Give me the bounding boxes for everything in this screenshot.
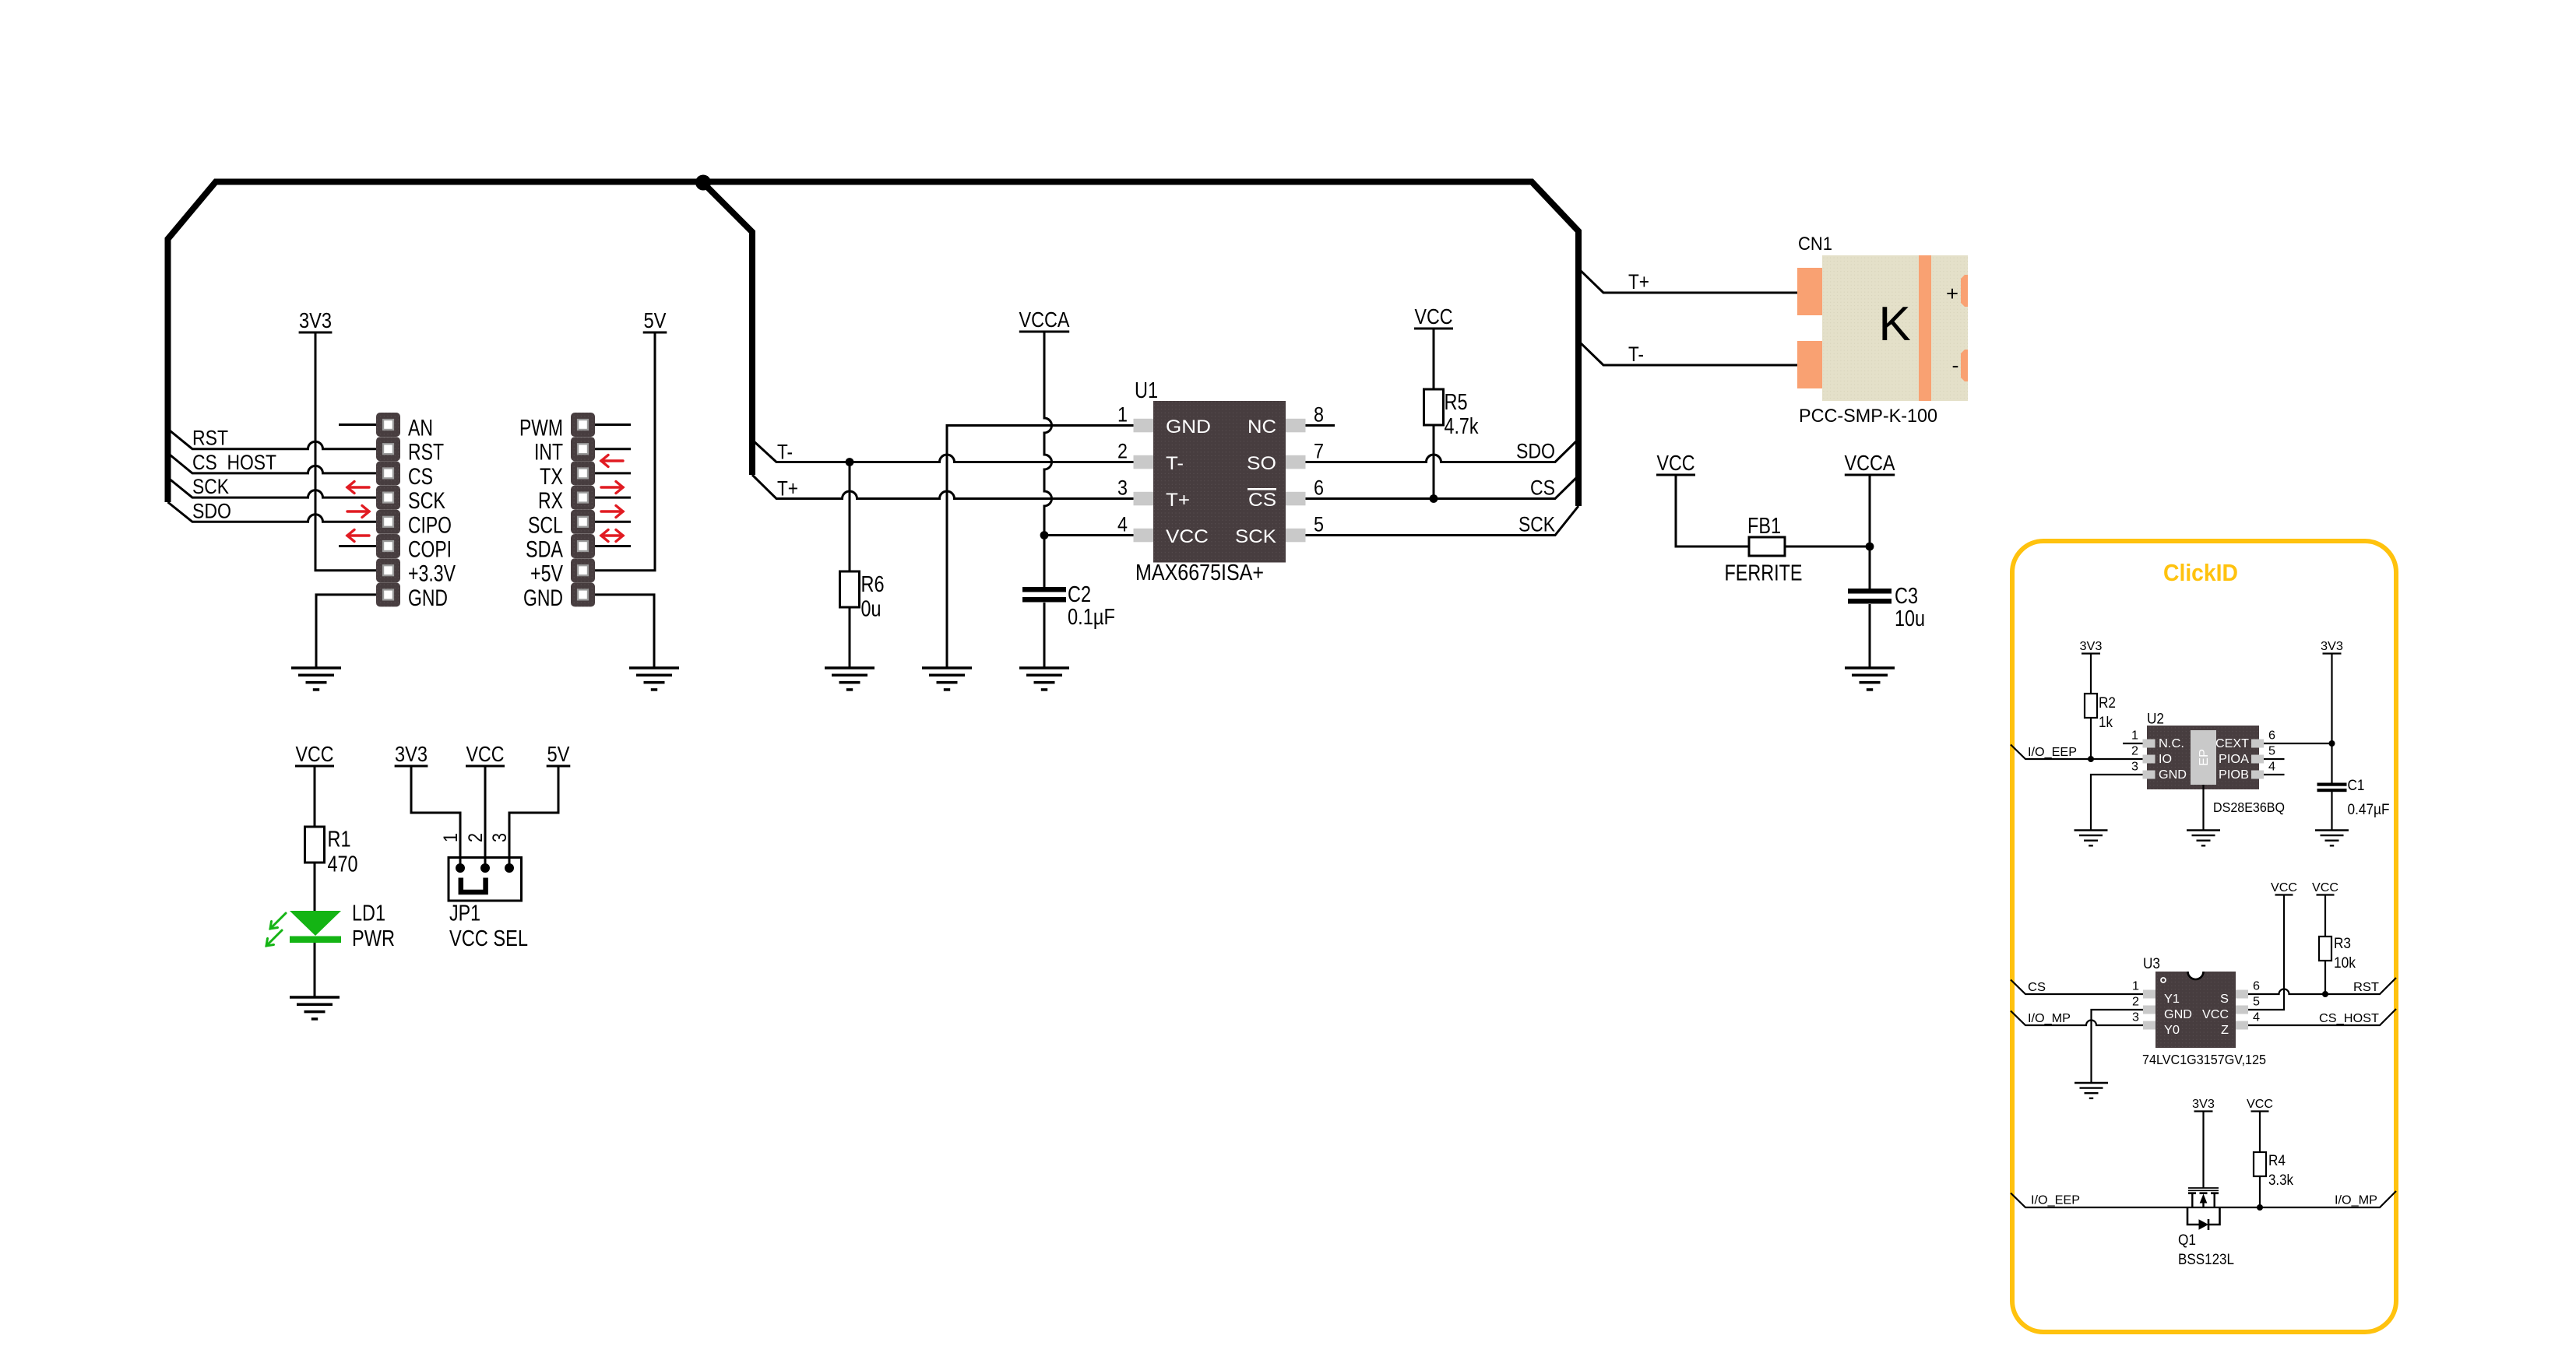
wire - RST net from bus to header (hop over 3V3 rail) [168, 429, 377, 449]
arrow - SDA direction (red, both) [601, 530, 623, 542]
svg-text:PCC-SMP-K-100: PCC-SMP-K-100 [1799, 406, 1937, 427]
node - FB1/VCCA/C3 junction [1866, 543, 1874, 551]
wire - T+ net from bus to U1 pin 3 [752, 475, 1134, 499]
wire - LED cathode to ground [314, 943, 316, 997]
svg-text:GND: GND [1166, 416, 1211, 438]
svg-text:2: 2 [2132, 996, 2139, 1009]
svg-text:3.3k: 3.3k [2268, 1172, 2293, 1189]
svg-text:SDA: SDA [526, 537, 563, 563]
wire - 3V3 rail down to +3.3V pin [315, 332, 376, 571]
svg-text:VCCA: VCCA [1019, 307, 1071, 332]
svg-text:RST: RST [192, 427, 228, 450]
svg-text:-: - [1952, 353, 1959, 377]
svg-text:VCC: VCC [2271, 881, 2297, 894]
label - U2 right pin names CEXT PIOA PIOB [2215, 737, 2250, 782]
svg-text:R5: R5 [1445, 390, 1468, 415]
svg-text:IO: IO [2159, 753, 2172, 766]
svg-text:CS: CS [408, 464, 433, 490]
arrow - CIPO direction (red, right) [347, 506, 369, 518]
svg-text:C2: C2 [1068, 582, 1091, 607]
svg-text:CEXT: CEXT [2215, 737, 2250, 750]
svg-text:T-: T- [1166, 453, 1184, 474]
ground - below left header [291, 668, 341, 690]
svg-text:3V3: 3V3 [2080, 640, 2103, 653]
wire - I/O_MP net into U3 Y0 (hop over GND lead) [2011, 1011, 2143, 1026]
wire - C3 leads [1869, 546, 1871, 668]
svg-text:GND: GND [408, 585, 448, 611]
svg-text:VCC: VCC [466, 742, 505, 766]
capacitor C1 [2317, 783, 2347, 786]
svg-text:GND: GND [2164, 1008, 2192, 1021]
wire - 5V to JP1 pin 3 [509, 766, 558, 868]
svg-text:JP1: JP1 [449, 901, 480, 926]
wire - C1 to ground [2331, 792, 2332, 831]
node - T- to R6 junction [846, 458, 854, 466]
svg-text:T+: T+ [1628, 270, 1649, 293]
ground - below C3 [1845, 668, 1895, 690]
svg-text:T+: T+ [1166, 490, 1190, 511]
svg-text:R3: R3 [2334, 936, 2351, 952]
svg-text:VCCA: VCCA [1845, 451, 1896, 475]
svg-text:Y1: Y1 [2164, 993, 2180, 1006]
wire - R2 leads [2090, 654, 2092, 759]
svg-text:1: 1 [2132, 980, 2139, 993]
LED LD1 - green power LED [290, 911, 341, 943]
wire - VCC through FB1 to VCCA node [1676, 475, 1870, 547]
svg-text:U3: U3 [2143, 956, 2160, 972]
svg-text:U1: U1 [1135, 378, 1158, 403]
arrow - TX direction (red, right) [601, 482, 623, 494]
wire - I/O_EEP net into U2 IO pin [2011, 745, 2143, 760]
svg-text:INT: INT [534, 440, 563, 466]
label - U2 pin numbers 1 2 3 [2131, 729, 2138, 774]
label - U3 pin numbers 1 2 3 [2132, 980, 2139, 1024]
wire - T+ net from bus to CN1 [1578, 269, 1797, 293]
wire - I/O_EEP to I/O_MP pass wire through Q1 [2011, 1191, 2396, 1207]
svg-text:ClickID: ClickID [2163, 559, 2238, 586]
connector JP1 - VCC SEL jumper with shunt on pins 1-2 [449, 858, 522, 901]
svg-text:8: 8 [1314, 403, 1324, 427]
svg-text:2: 2 [465, 833, 487, 842]
svg-text:CN1: CN1 [1798, 234, 1832, 255]
ground - below C2 [1019, 668, 1069, 690]
ground - U3 GND ground [2075, 1083, 2108, 1098]
svg-text:R4: R4 [2268, 1153, 2286, 1169]
resistor R4 [2254, 1152, 2266, 1176]
wire - CS net into U3 Y1 [2011, 980, 2143, 995]
label - U2 pin numbers 6 5 4 [2268, 729, 2275, 774]
capacitor C2 [1022, 587, 1066, 592]
svg-text:PWM: PWM [519, 416, 563, 441]
ground - U2 GND pin ground [2075, 831, 2108, 846]
resistor R1 [305, 827, 325, 863]
ground - below R6 [825, 668, 875, 690]
svg-text:PIOB: PIOB [2219, 768, 2249, 782]
node - CS to R5 junction [1430, 494, 1438, 503]
svg-text:Q1: Q1 [2178, 1232, 2196, 1249]
label - U2 left pin names N.C. IO GND [2159, 737, 2187, 782]
wire - thick bus branch to MAX6675 T-/T+ inputs [703, 183, 752, 475]
op-amp U1 MAX6675ISA+ thermocouple converter body with pads [1134, 401, 1306, 563]
svg-text:1k: 1k [2099, 715, 2113, 731]
svg-text:I/O_MP: I/O_MP [2335, 1194, 2377, 1207]
wire - C2 leads [1043, 536, 1046, 669]
svg-text:VCC: VCC [1415, 304, 1453, 329]
node - I/O_EEP to R2 junction [2088, 756, 2094, 762]
svg-text:VCC: VCC [1657, 451, 1695, 475]
svg-text:R6: R6 [861, 572, 885, 597]
wire - CS_HOST net from bus to CS pin (hop over 3V3 rail) [168, 453, 377, 473]
transistor Q1 BSS123L n-channel MOSFET with body diode [2187, 1188, 2220, 1230]
svg-text:3V3: 3V3 [299, 308, 332, 332]
svg-text:N.C.: N.C. [2159, 737, 2184, 750]
svg-text:+5V: +5V [530, 561, 563, 587]
wire - U2 CEXT to C1 [2264, 743, 2332, 744]
svg-text:NC: NC [1248, 416, 1276, 438]
svg-text:+: + [1946, 282, 1958, 305]
ferrite bead FB1 [1749, 537, 1785, 556]
arrow - SPI SCK direction (red, left) [347, 482, 369, 494]
svg-text:+3.3V: +3.3V [408, 561, 456, 587]
wire - U2 GND pin to ground [2091, 775, 2143, 831]
wire - 3V3 rail to C1 [2331, 654, 2332, 783]
svg-text:1: 1 [440, 833, 462, 842]
svg-text:PIOA: PIOA [2219, 753, 2250, 766]
wire - 5V rail down to +5V pin [595, 332, 655, 571]
svg-text:VCC: VCC [1166, 526, 1209, 547]
node - RST to R3 junction [2322, 991, 2328, 997]
connector CN1 - PCC-SMP-K-100 thermocouple socket body [1797, 255, 1968, 401]
svg-text:BSS123L: BSS123L [2178, 1252, 2234, 1268]
svg-text:7: 7 [1314, 440, 1324, 463]
label - overline on U1 CS pin [1248, 488, 1276, 490]
wire - left header GND to ground [316, 595, 376, 668]
connector - mikroBUS PWM/UART/I2C header (right column) [571, 413, 595, 606]
wire - CS_HOST net from U3 Z pin [2248, 1009, 2396, 1025]
resistor R2 [2085, 694, 2097, 718]
frame - ClickID section yellow rounded border [2012, 541, 2396, 1332]
svg-text:VCC: VCC [296, 742, 334, 766]
resistor R3 [2319, 937, 2331, 961]
svg-text:T-: T- [777, 441, 793, 464]
svg-text:5V: 5V [547, 742, 571, 766]
svg-text:RX: RX [538, 488, 563, 514]
svg-text:VCC: VCC [2312, 881, 2338, 894]
svg-text:T+: T+ [777, 477, 798, 501]
svg-text:SDO: SDO [192, 499, 231, 522]
wire - U2 PIOB stub [2264, 774, 2285, 775]
svg-text:470: 470 [328, 852, 358, 877]
svg-text:CS: CS [1530, 476, 1555, 500]
node - CEXT/3V3/C1 junction [2329, 740, 2335, 747]
svg-text:2: 2 [2131, 745, 2138, 758]
capacitor C3 [1848, 589, 1892, 594]
svg-text:RST: RST [408, 440, 444, 466]
svg-text:3: 3 [2131, 761, 2138, 774]
ground - below LD1 [290, 997, 340, 1019]
wire - U3 GND pin to ground [2092, 1010, 2144, 1083]
svg-text:4: 4 [1117, 513, 1128, 536]
svg-text:EP: EP [2198, 749, 2211, 766]
svg-text:CS_HOST: CS_HOST [2319, 1012, 2380, 1025]
arrow - COPI direction (red, left) [347, 530, 369, 542]
svg-text:AN: AN [408, 416, 433, 441]
svg-text:10u: 10u [1895, 606, 1925, 631]
node - R4 to I/O wire junction [2257, 1204, 2263, 1211]
wire - U2 PIOA stub [2264, 758, 2285, 760]
svg-text:2: 2 [1117, 440, 1128, 463]
svg-text:3: 3 [2132, 1011, 2139, 1024]
svg-text:0.1µF: 0.1µF [1068, 605, 1115, 630]
svg-text:I/O_EEP: I/O_EEP [2028, 746, 2077, 759]
svg-text:1: 1 [2131, 729, 2138, 743]
svg-text:GND: GND [523, 585, 563, 611]
label - U1 pin numbers 1 2 3 4 [1117, 403, 1128, 536]
svg-text:TX: TX [540, 464, 563, 490]
connector - mikroBUS analog/SPI header (left column) [376, 413, 400, 606]
svg-text:CS: CS [1248, 490, 1276, 511]
label - U1 pin numbers 8 7 6 5 [1314, 403, 1324, 536]
svg-text:4.7k: 4.7k [1445, 414, 1479, 439]
svg-text:CS_HOST: CS_HOST [192, 451, 276, 474]
wire - U1 pin1 GND to ground rail [947, 426, 1134, 669]
wire - R4 leads [2259, 1112, 2261, 1207]
wire - R3 leads [2324, 896, 2326, 995]
wire - Q1 gate lead [2202, 1112, 2204, 1189]
svg-text:U2: U2 [2147, 712, 2164, 728]
ground - below C1 [2315, 831, 2349, 846]
wire - U2 pin1 NC stub [2123, 743, 2143, 744]
arrow - RX direction (red, right) [601, 506, 623, 518]
svg-text:3V3: 3V3 [2321, 640, 2343, 653]
svg-text:FERRITE: FERRITE [1725, 561, 1803, 586]
svg-text:5: 5 [2253, 996, 2260, 1009]
node - VCCA to VCC pin junction [1040, 531, 1049, 539]
svg-text:SCK: SCK [1519, 513, 1555, 536]
label - left header pin names AN RST CS SCK CIPO COPI +3.3V GND [408, 416, 456, 611]
ground - below right header [629, 668, 679, 690]
svg-text:I/O_MP: I/O_MP [2028, 1012, 2071, 1025]
wire - VCCA rail down to U1 pin 4 (hops over pins 1-3 wires) [1044, 332, 1052, 536]
wire - R6 lead from T- junction to ground [849, 462, 851, 669]
wire - COPI stub [339, 545, 376, 547]
wire - U1 pin4 VCC wire [1044, 534, 1134, 536]
label - U1 right pin names NC SO CS SCK [1235, 416, 1277, 547]
svg-text:T-: T- [1628, 343, 1644, 366]
wire - SDO net from U1 SO pin to bus (hop over R5 lead) [1306, 439, 1579, 462]
label - U3 right pin names S VCC Z [2202, 993, 2229, 1037]
resistor R6 [840, 571, 860, 607]
svg-text:1: 1 [1117, 403, 1128, 427]
svg-text:R1: R1 [328, 828, 351, 852]
wire - RST net from U3 S pin (hop over VCC rail) [2248, 978, 2396, 994]
svg-text:GND: GND [2159, 768, 2187, 782]
svg-text:SCK: SCK [408, 488, 445, 514]
wire - SCK net from U1 SCK pin to bus [1306, 506, 1579, 536]
svg-text:C3: C3 [1895, 584, 1918, 609]
ground - U2 EP ground [2187, 831, 2220, 846]
svg-text:5: 5 [1314, 513, 1324, 536]
wire - CS net from U1 CS pin to bus [1306, 476, 1579, 499]
resistor R5 [1424, 389, 1444, 425]
svg-text:VCC SEL: VCC SEL [449, 926, 528, 951]
op-amp U3 74LVC1G3157 analog switch body with pads [2143, 972, 2248, 1048]
wire - VCC to JP1 pin 2 [484, 766, 487, 868]
svg-text:VCC: VCC [2247, 1098, 2273, 1111]
label - U3 left pin names Y1 GND Y0 [2164, 993, 2192, 1037]
wire - R5 leads [1433, 329, 1435, 499]
wire - 3V3 to JP1 pin 1 [411, 766, 460, 868]
svg-text:SCK: SCK [1235, 526, 1277, 547]
wire - SDO net from bus to CIPO pin (hop over 3V3 rail) [168, 502, 377, 522]
label - JP1 pin numbers 1 2 3 [440, 833, 511, 842]
svg-text:3V3: 3V3 [395, 742, 428, 766]
wire - U3 VCC pin to VCC rail [2248, 896, 2284, 1010]
svg-text:6: 6 [2268, 729, 2275, 743]
svg-text:10k: 10k [2334, 955, 2356, 972]
ground - U1 GND pin ground [922, 668, 972, 690]
svg-text:4: 4 [2253, 1011, 2260, 1024]
wire - thick bus outline from mikroBUS to SPI/thermocouple nets (left loop) [168, 182, 1579, 507]
svg-text:74LVC1G3157GV,125: 74LVC1G3157GV,125 [2142, 1052, 2266, 1067]
svg-text:SCK: SCK [192, 475, 229, 498]
svg-text:3V3: 3V3 [2192, 1098, 2215, 1111]
svg-text:6: 6 [2253, 980, 2260, 993]
svg-text:4: 4 [2268, 761, 2275, 774]
wire - U2 EP to ground [2202, 785, 2204, 831]
svg-text:DS28E36BQ: DS28E36BQ [2213, 799, 2285, 815]
wire - T- net from bus to CN1 [1578, 341, 1797, 365]
arrow - INT direction (red, left) [601, 455, 623, 467]
node - bus junction on top bus line [695, 175, 711, 191]
wire - right header stub wires [595, 425, 631, 546]
svg-text:RST: RST [2353, 981, 2380, 994]
svg-text:Z: Z [2221, 1024, 2229, 1037]
svg-text:Y0: Y0 [2164, 1024, 2180, 1037]
svg-text:VCC: VCC [2202, 1008, 2229, 1021]
wire - U1 pin8 NC stub [1306, 424, 1336, 427]
label - U1 left pin names GND T- T+ VCC [1166, 416, 1211, 547]
svg-text:R2: R2 [2099, 695, 2116, 712]
svg-text:FB1: FB1 [1747, 514, 1781, 539]
svg-text:0.47µF: 0.47µF [2348, 802, 2390, 818]
wire - T- net from bus to U1 pin 2 [752, 440, 1134, 462]
wire - VCCA rail to junction [1869, 475, 1871, 547]
svg-text:COPI: COPI [408, 537, 452, 563]
arrow - LED light emission arrows [266, 913, 286, 946]
wire - SCK net from bus to header (hop over 3V3 rail) [168, 478, 377, 498]
svg-text:5V: 5V [644, 308, 667, 332]
wire - AN stub [339, 423, 376, 426]
svg-text:3: 3 [1117, 476, 1128, 500]
svg-text:PWR: PWR [352, 926, 395, 951]
svg-text:SDO: SDO [1516, 440, 1555, 463]
svg-text:CIPO: CIPO [408, 512, 452, 538]
svg-text:6: 6 [1314, 476, 1324, 500]
op-amp U2 DS28E36BQ secure authenticator body with pads and EP pad [2143, 726, 2265, 789]
svg-text:I/O_EEP: I/O_EEP [2031, 1194, 2080, 1207]
svg-text:LD1: LD1 [352, 901, 385, 926]
wire - right header GND to ground [595, 595, 654, 668]
svg-text:0u: 0u [861, 597, 882, 622]
svg-text:SCL: SCL [528, 512, 563, 538]
svg-text:SO: SO [1247, 453, 1276, 474]
svg-text:C1: C1 [2348, 778, 2365, 794]
svg-text:3: 3 [489, 833, 511, 842]
svg-text:5: 5 [2268, 745, 2275, 758]
label - U3 pin numbers 6 5 4 [2253, 980, 2260, 1024]
svg-text:CS: CS [2028, 981, 2046, 994]
svg-text:S: S [2220, 993, 2229, 1006]
svg-text:MAX6675ISA+: MAX6675ISA+ [1135, 561, 1264, 585]
svg-text:K: K [1878, 297, 1910, 351]
wire - R1 leads [314, 766, 316, 911]
label - right header pin names PWM INT TX RX SCL SDA +5V GND [519, 416, 563, 611]
